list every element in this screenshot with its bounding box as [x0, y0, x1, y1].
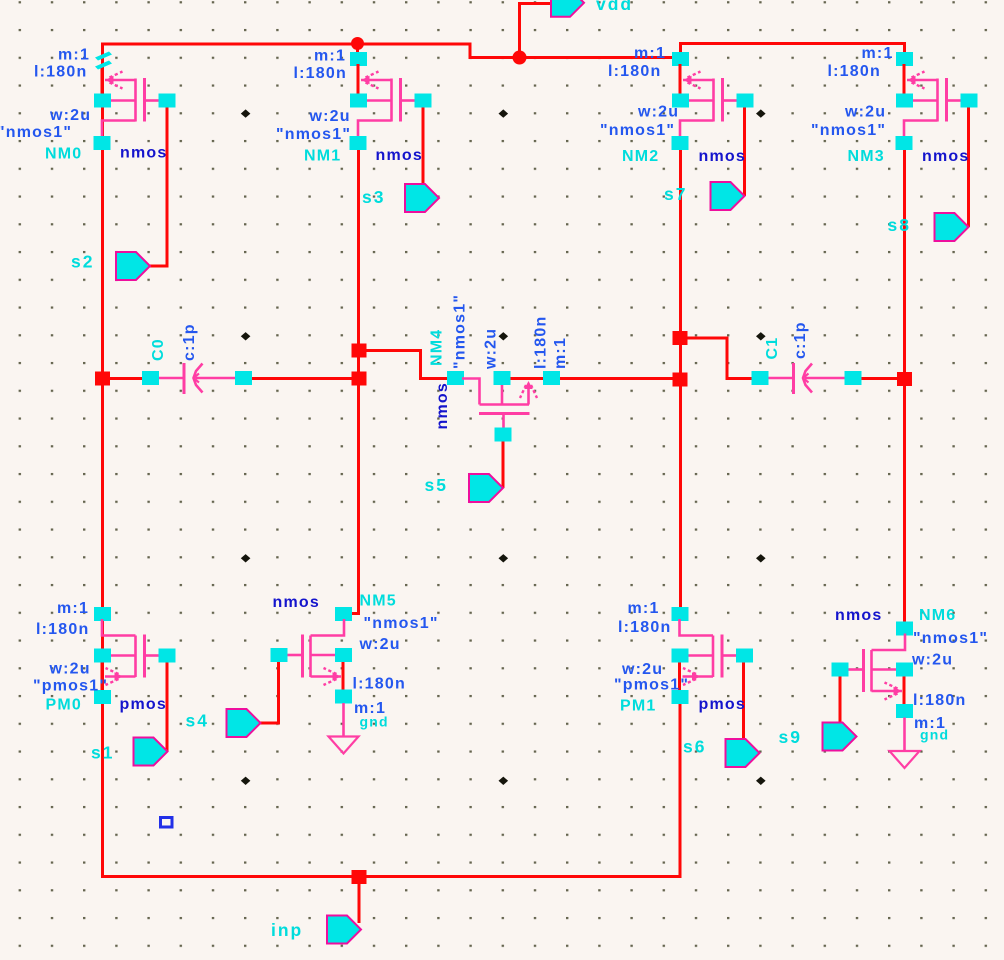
svg-text:nmos: nmos [434, 382, 451, 429]
wire: C1 right to right junction [860, 377, 905, 380]
svg-text:w:2u: w:2u [359, 636, 401, 653]
wire: middle junction to NM4 drain [359, 351, 448, 379]
svg-text:"nmos1": "nmos1" [811, 122, 886, 139]
pin s2 [116, 252, 150, 280]
wire: NM3 drain down to NM6 [903, 149, 906, 623]
svg-text:c:1p: c:1p [181, 323, 198, 361]
labels NM4 (rotated) [429, 294, 570, 430]
svg-text:vdd: vdd [596, 0, 633, 14]
svg-text:s6: s6 [683, 737, 706, 757]
svg-text:"nmos1": "nmos1" [600, 122, 675, 139]
pin inp [327, 916, 361, 944]
svg-text:"pmos1": "pmos1" [33, 678, 108, 695]
wire: pin s4 to NM5 gate [260, 662, 279, 723]
labels NM6 [835, 607, 988, 743]
junction dot (vdd rail) [513, 51, 527, 65]
svg-text:gnd: gnd [920, 727, 949, 743]
ground symbol gnd (NM5 source) [329, 703, 359, 754]
svg-text:l:180n: l:180n [34, 64, 87, 81]
junction (left rail / C0) [95, 372, 110, 386]
svg-text:l:180n: l:180n [533, 316, 550, 369]
svg-text:PM0: PM0 [46, 697, 83, 714]
transistor NM1 (nmos) symbol [350, 52, 432, 150]
transistor NM0 (nmos) symbol [94, 52, 176, 151]
svg-text:m:1: m:1 [58, 47, 90, 64]
svg-text:"nmos1": "nmos1" [364, 615, 439, 632]
labels PM1 [614, 600, 746, 715]
svg-text:s1: s1 [91, 743, 114, 763]
wire: inp drop [358, 884, 361, 923]
svg-text:l:180n: l:180n [36, 621, 89, 638]
svg-text:NM6: NM6 [919, 607, 956, 624]
svg-text:s3: s3 [362, 187, 385, 207]
svg-text:PM1: PM1 [620, 698, 657, 715]
junction (right-middle / NM4 source) [673, 373, 688, 387]
svg-text:m:1: m:1 [552, 337, 569, 369]
svg-text:s7: s7 [664, 184, 687, 204]
svg-text:m:1: m:1 [634, 45, 666, 62]
wire: NM2 drain down to PM1 [679, 149, 682, 608]
svg-text:m:1: m:1 [314, 48, 346, 65]
svg-text:NM0: NM0 [45, 146, 82, 163]
wire: PM1 gate to pin s6 [742, 662, 745, 740]
svg-text:NM1: NM1 [304, 148, 341, 165]
wire: NM1 gate to pin s3 [422, 106, 425, 185]
junction (right rail / C1) [897, 372, 912, 386]
svg-text:NM3: NM3 [848, 148, 885, 165]
svg-text:C0: C0 [150, 338, 167, 361]
pin s6 [726, 739, 760, 767]
transistor NM6 (nmos) symbol [832, 622, 914, 719]
transistor NM3 (nmos) symbol [896, 52, 978, 150]
pin s8 [935, 213, 969, 241]
pin s9 [823, 723, 857, 751]
wire: NM4 source to right-middle junction [509, 377, 680, 380]
wire: junction to C0 left [106, 377, 143, 380]
wire: NM3 gate to pin s8 [967, 106, 970, 227]
wire: left rail + top rail + jog to vdd row [103, 44, 673, 878]
junction (middle / C0) [352, 372, 367, 386]
transistor PM1 (pmos) symbol [672, 607, 754, 704]
svg-text:m:1: m:1 [628, 600, 660, 617]
svg-text:nmos: nmos [699, 148, 746, 165]
transistor NM5 (nmos) symbol [271, 607, 353, 704]
svg-text:"nmos1": "nmos1" [452, 294, 469, 369]
wire: NM0 gate to pin s2 [150, 106, 167, 266]
svg-text:l:180n: l:180n [828, 63, 881, 80]
svg-text:w:2u: w:2u [483, 328, 500, 370]
origin marker [161, 818, 173, 828]
pin s7 [711, 182, 745, 210]
svg-text:s2: s2 [71, 252, 94, 272]
svg-text:nmos: nmos [922, 148, 969, 165]
svg-text:pmos: pmos [699, 696, 746, 713]
labels C0 [150, 323, 198, 361]
svg-text:s9: s9 [779, 727, 802, 747]
svg-text:w:2u: w:2u [309, 108, 351, 125]
wire: NM1 drain down middle column [345, 149, 359, 614]
junction (middle / NM4 drain) [352, 344, 367, 358]
capacitor C1 c:1p symbol [752, 363, 862, 394]
pin s4 [227, 709, 261, 737]
svg-text:NM5: NM5 [360, 593, 397, 610]
svg-text:nmos: nmos [120, 145, 167, 162]
svg-text:"nmos1": "nmos1" [276, 126, 351, 143]
wire: vdd drop [520, 4, 552, 58]
svg-text:w:2u: w:2u [844, 104, 886, 121]
wire: pin s9 to NM6 gate [839, 677, 842, 724]
svg-text:l:180n: l:180n [294, 65, 347, 82]
pin s3 [405, 184, 439, 212]
svg-text:gnd: gnd [360, 714, 389, 730]
svg-text:s4: s4 [186, 711, 209, 731]
svg-text:C1: C1 [764, 337, 781, 360]
NM0 source pin marks [95, 52, 112, 61]
transistor NM4 (nmos, rotated) symbol [447, 371, 560, 442]
transistor PM0 (pmos) symbol [94, 607, 176, 704]
wire: right-middle junction jog to C1 left [680, 338, 753, 379]
svg-text:"nmos1": "nmos1" [913, 630, 988, 647]
svg-text:nmos: nmos [835, 607, 882, 624]
wire: NM2 gate to pin s7 [743, 106, 746, 196]
ground symbol gnd (NM6 source) [890, 718, 920, 769]
svg-text:"pmos1": "pmos1" [614, 677, 689, 694]
labels C1 [764, 321, 809, 359]
wire: PM0 gate to pin s1 [166, 662, 169, 751]
junction (right-middle / C1 jog) [673, 331, 688, 345]
wire: C0 right to middle junction [250, 377, 360, 380]
svg-text:nmos: nmos [376, 147, 423, 164]
capacitor C0 c:1p symbol [142, 363, 252, 394]
svg-text:s5: s5 [425, 475, 448, 495]
svg-text:pmos: pmos [120, 696, 167, 713]
svg-text:nmos: nmos [273, 594, 320, 611]
labels PM0 [33, 600, 167, 714]
labels NM0 [0, 47, 167, 163]
transistor NM2 (nmos) symbol [672, 52, 754, 150]
svg-text:l:180n: l:180n [608, 63, 661, 80]
svg-text:w:2u: w:2u [637, 104, 679, 121]
labels NM1 [276, 48, 423, 165]
pin s5 [469, 474, 503, 502]
labels NM5 [273, 593, 439, 730]
labels NM2 [600, 45, 746, 165]
svg-text:w:2u: w:2u [911, 652, 953, 669]
svg-text:NM2: NM2 [622, 148, 659, 165]
svg-text:w:2u: w:2u [621, 661, 663, 678]
pin s1 [134, 738, 168, 766]
labels NM3 [811, 45, 969, 165]
svg-text:l:180n: l:180n [618, 619, 671, 636]
wire: NM4 gate to pin s5 [502, 441, 505, 488]
svg-text:l:180n: l:180n [913, 692, 966, 709]
svg-text:inp: inp [271, 920, 303, 940]
svg-text:m:1: m:1 [57, 600, 89, 617]
junction dot (NM1 source at rail) [351, 37, 364, 50]
wire: NM2-NM3 top link [681, 44, 905, 55]
svg-text:w:2u: w:2u [49, 107, 91, 124]
svg-text:c:1p: c:1p [792, 321, 809, 359]
pin vdd (top, clipped) [551, 0, 584, 17]
junction (bottom rail / inp) [352, 870, 367, 884]
wire: PM1 bottom to bottom rail [101, 703, 680, 877]
svg-text:"nmos1": "nmos1" [0, 124, 72, 141]
svg-text:m:1: m:1 [862, 45, 894, 62]
svg-text:w:2u: w:2u [49, 661, 91, 678]
svg-text:s8: s8 [888, 215, 911, 235]
wire: NM1 source stub to top rail [356, 42, 359, 54]
svg-text:NM4: NM4 [429, 329, 446, 366]
svg-text:l:180n: l:180n [353, 676, 406, 693]
